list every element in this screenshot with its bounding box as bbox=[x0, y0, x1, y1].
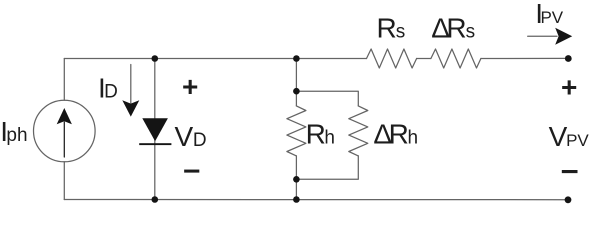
resistor delta-Rh zigzag bbox=[349, 106, 368, 156]
node shunt split upper bbox=[293, 88, 300, 95]
svg-text:ΔRh: ΔRh bbox=[373, 119, 418, 150]
wire delta-Rh bottom return bbox=[296, 156, 358, 179]
resistor delta-Rs zigzag bbox=[431, 49, 481, 68]
svg-text:Rs: Rs bbox=[377, 12, 406, 43]
node shunt bottom bbox=[293, 196, 300, 203]
arrowhead current source bbox=[57, 108, 72, 124]
svg-text:+: + bbox=[561, 72, 577, 103]
wire top-left horizontal bbox=[64, 58, 366, 60]
svg-text:−: − bbox=[561, 156, 579, 187]
resistor Rh zigzag bbox=[287, 106, 306, 156]
wire diode branch vertical bbox=[154, 59, 156, 200]
arrowhead I_D bbox=[122, 100, 139, 116]
resistor Rs zigzag bbox=[367, 49, 417, 68]
node diode bottom bbox=[152, 196, 159, 203]
arrow shaft I_PV bbox=[528, 35, 557, 37]
wire left rail upper bbox=[63, 59, 65, 101]
wire branch top to delta-Rh bbox=[296, 91, 358, 106]
wire left rail lower bbox=[63, 162, 65, 200]
svg-text:Rh: Rh bbox=[306, 119, 335, 150]
wire top-right segment between resistors bbox=[417, 58, 431, 60]
svg-text:VD: VD bbox=[175, 121, 207, 152]
arrowhead I_PV bbox=[555, 28, 572, 45]
node shunt top bbox=[293, 55, 300, 62]
arrow shaft current source bbox=[63, 122, 65, 157]
wire shunt branch upper lead bbox=[295, 59, 297, 106]
node shunt merge lower bbox=[293, 176, 300, 183]
wire shunt branch lower lead bbox=[295, 156, 297, 200]
arrow shaft I_D bbox=[130, 65, 132, 104]
svg-text:Iph: Iph bbox=[0, 116, 27, 147]
current source I_ph circle bbox=[34, 100, 96, 162]
diode D cathode bar bbox=[139, 143, 171, 145]
svg-text:IPV: IPV bbox=[535, 0, 564, 29]
svg-text:ID: ID bbox=[98, 72, 118, 103]
svg-text:ΔRs: ΔRs bbox=[431, 12, 475, 43]
node output top terminal bbox=[565, 55, 572, 62]
wire bottom horizontal bbox=[64, 199, 568, 201]
node output bottom terminal bbox=[565, 196, 572, 203]
diode D triangle bbox=[142, 118, 168, 141]
svg-text:−: − bbox=[183, 156, 201, 187]
svg-text:VPV: VPV bbox=[549, 121, 589, 152]
wire top-right to output terminal bbox=[481, 57, 568, 59]
svg-text:+: + bbox=[182, 71, 198, 102]
node diode top bbox=[152, 55, 159, 62]
